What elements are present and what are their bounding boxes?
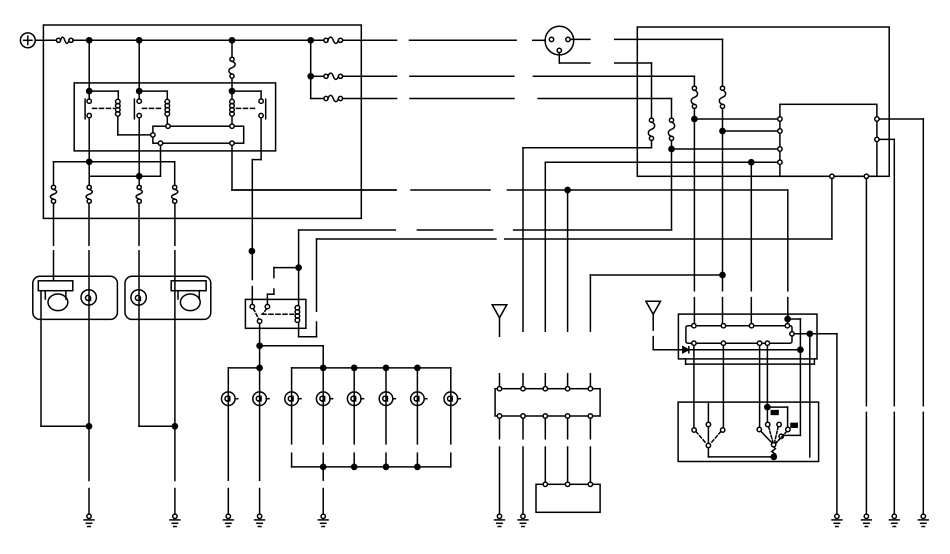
wire lamp1 ground xyxy=(227,489,229,515)
lamp L1 xyxy=(222,392,238,406)
switch right dashes xyxy=(769,427,787,443)
control unit terminals xyxy=(151,124,235,145)
wire lineP xyxy=(299,229,672,231)
antenna ANT1 xyxy=(492,305,507,318)
amplifier terminals xyxy=(543,482,593,486)
wire ant2 drop xyxy=(653,314,682,349)
relay R2 contact points xyxy=(137,99,141,118)
integration unit left terminals xyxy=(778,117,782,165)
junction relay2-out / lineB xyxy=(137,174,142,179)
fuse F3 xyxy=(86,185,92,203)
junction ant line/800 xyxy=(798,347,803,352)
ground G10 xyxy=(918,514,928,526)
wire fuse232 to relay3 xyxy=(231,78,233,91)
wire radio out3 xyxy=(759,345,761,427)
lighting relay common xyxy=(257,319,261,323)
wire horn1 out xyxy=(41,291,89,427)
horn S1 (spiral) xyxy=(81,290,96,305)
radio right terminal xyxy=(790,332,794,336)
lighting switch box xyxy=(678,402,819,461)
wire bus y40 seg2 xyxy=(410,39,517,41)
lamp L4 xyxy=(316,392,332,406)
junction fuseB/term3 xyxy=(669,146,674,151)
wire lamp relay coil riser xyxy=(298,230,300,306)
ground G8 xyxy=(862,514,872,526)
ignition switch SW1 xyxy=(545,26,574,55)
switch right cluster contacts xyxy=(757,422,790,431)
horn H2 xyxy=(171,281,206,311)
dash fuse box (outer left box) xyxy=(43,25,361,218)
integration unit (inner box) xyxy=(780,104,877,176)
node relay3 top junction xyxy=(229,89,234,94)
wire lamp relay B to P xyxy=(274,267,299,269)
relay R1 link xyxy=(93,107,115,109)
ground G1 xyxy=(84,514,94,526)
wire fuse3 down xyxy=(88,203,90,426)
wire lamp bank feed xyxy=(260,346,324,368)
fuse F2 horn xyxy=(50,185,56,203)
splice on relay feed xyxy=(249,249,254,254)
wire conn3 drop xyxy=(544,374,546,387)
wire conn5 drop xyxy=(589,374,591,387)
wire left common out xyxy=(708,448,773,457)
wire radio out4 xyxy=(766,345,768,422)
junction top bus lamp7 xyxy=(415,365,420,370)
label IG xyxy=(791,423,797,427)
wire lamp relay common out xyxy=(259,323,261,480)
fuse FA xyxy=(648,118,654,140)
relay R3 contact bar xyxy=(265,99,267,119)
fuse F4 xyxy=(136,185,142,203)
junction radio feed4 branch xyxy=(785,316,790,321)
speaker bar under radio xyxy=(686,359,815,364)
switch left dashes xyxy=(696,432,721,444)
radio connector top terminals xyxy=(497,387,592,391)
wire bus y40 seg3 xyxy=(533,39,545,41)
wire radio right out xyxy=(794,334,837,514)
wire relay2 contact out xyxy=(138,118,140,186)
ground G3 xyxy=(223,514,233,526)
radio box xyxy=(678,314,817,359)
junction horn2 join xyxy=(172,424,177,429)
wire relay1 drop from bus xyxy=(88,40,90,91)
wire fuseD out xyxy=(722,109,724,324)
fuse/relay box right xyxy=(637,27,889,176)
junction common/feed xyxy=(257,343,262,348)
wire left mid feed xyxy=(707,402,709,422)
wire right term2 out xyxy=(879,139,894,514)
wire bus y40 mid xyxy=(343,39,397,41)
wire relay1 contact feed xyxy=(88,91,90,99)
fuse F5 horn2 xyxy=(172,185,178,203)
wire line y275 xyxy=(590,275,722,331)
wire right term1 out xyxy=(879,119,923,514)
wire row2 segs xyxy=(343,75,695,77)
wire fuseB out xyxy=(671,141,673,230)
wire line A xyxy=(54,162,175,186)
ground G7 xyxy=(518,514,528,526)
fuse main F0 xyxy=(56,37,73,43)
junction fuseD/y275 xyxy=(720,272,725,277)
switch right common xyxy=(771,443,775,447)
wire lamp relay contactB feed xyxy=(267,268,274,305)
diode D1 xyxy=(683,347,689,353)
junction horn1 join xyxy=(86,424,91,429)
fuse F232 vertical xyxy=(229,57,235,78)
wire ant1 drop xyxy=(499,318,501,387)
ground G9 xyxy=(889,514,899,526)
wire fuse232 top xyxy=(231,40,233,57)
switch left cluster contacts xyxy=(692,422,725,432)
wire fuse4 down xyxy=(138,203,140,426)
horn unit right box xyxy=(125,276,211,319)
wire relay3 coil out xyxy=(231,117,233,124)
lighting relay box xyxy=(245,299,306,328)
relay R1 contact points xyxy=(87,99,91,118)
junction bus/fuse232 xyxy=(229,38,234,43)
wire lamp relay contactA feed xyxy=(251,287,253,305)
lighting relay coil xyxy=(295,306,300,323)
relay R2 link xyxy=(143,107,164,109)
lamp L3 xyxy=(285,392,301,406)
wire fuse2 down xyxy=(53,203,55,281)
wire lamp bottom bus xyxy=(292,466,451,468)
wire relay3 contact feed xyxy=(232,91,261,99)
wire conn out 5 xyxy=(589,418,591,482)
wire branch311 down xyxy=(311,40,324,98)
junction top bus lamp6 xyxy=(383,365,388,370)
junction common/pairline xyxy=(257,365,262,370)
relay R1 contact bar xyxy=(84,99,86,119)
wire branch to 800 xyxy=(783,319,800,435)
wire out4 branch xyxy=(767,407,787,427)
junction branch311/row2 xyxy=(308,74,313,79)
wire conn2 drop xyxy=(522,374,524,387)
wire relay2 drop from bus xyxy=(138,40,140,91)
relay R2 coil xyxy=(165,99,170,116)
wire conn4 drop xyxy=(567,190,569,387)
wire switch com riser xyxy=(809,334,811,457)
wire relay1 coil feed xyxy=(89,91,118,99)
junction y190/conn4 xyxy=(565,187,570,192)
lamp L7 xyxy=(411,392,427,406)
wire right solid blade xyxy=(761,431,772,443)
wire row3 segs xyxy=(343,98,672,100)
fuse F7 row3 xyxy=(324,95,343,101)
lamp L5 xyxy=(347,392,363,406)
fuse FC xyxy=(691,86,697,108)
wire term1 line xyxy=(694,118,777,120)
lamp L2 xyxy=(253,392,269,406)
integration unit right terminals xyxy=(875,117,879,142)
wire fuseA out xyxy=(523,141,652,332)
radio top terminals xyxy=(692,324,790,328)
antenna ANT2 xyxy=(646,301,661,314)
wire relay2 coil feed xyxy=(139,91,167,99)
relay sub-box xyxy=(74,83,275,151)
wire conn out 1 xyxy=(499,418,501,514)
wire term4 line xyxy=(545,162,777,331)
junction bus/relay1 xyxy=(87,38,92,43)
switch left common xyxy=(706,443,710,447)
relay R3 link xyxy=(237,107,258,109)
wire switch bottom out xyxy=(559,53,590,63)
wire radio feed3 xyxy=(750,162,752,323)
wire horn1 ground drop xyxy=(88,426,90,514)
junction top bus lamp4 xyxy=(321,365,326,370)
wire term3 line xyxy=(672,148,778,150)
junction bottom bus lamp4 xyxy=(321,464,326,469)
wire battery to fuse xyxy=(35,39,56,41)
radio connector bottom terminals xyxy=(497,414,592,418)
wire lamp pair line xyxy=(228,368,259,480)
label ACC xyxy=(771,411,778,415)
switch common zigzag xyxy=(772,447,776,456)
junction term4/radio xyxy=(749,160,754,165)
junction radio right/switchwire xyxy=(807,331,812,336)
fuse F1 row1 xyxy=(324,37,343,43)
wire fuseB top xyxy=(671,99,673,119)
wire relay2 contact feed xyxy=(138,91,140,99)
wire line y190 xyxy=(232,190,788,291)
horn S2 (spiral) xyxy=(131,290,146,305)
junction bus/relay2 xyxy=(137,38,142,43)
ground G5 xyxy=(318,514,328,526)
wire y40 to corner 722 xyxy=(615,38,723,40)
wire relay1 contact out xyxy=(88,118,90,186)
wire relay2 coil out xyxy=(166,117,168,124)
ground G6 xyxy=(495,514,505,526)
wire term2 line xyxy=(723,130,778,132)
lamp L8 xyxy=(444,392,460,406)
wire lamp relay coil out xyxy=(299,239,317,337)
junction lineA/relay1-out xyxy=(87,159,92,164)
wire radio out2 xyxy=(722,345,724,427)
lamp L6 xyxy=(379,392,395,406)
wire bottom term1 down (lineQ) xyxy=(831,179,833,240)
junction commons xyxy=(771,454,776,459)
junction bottom bus lamp7 xyxy=(415,464,420,469)
wire relay3 coil feed xyxy=(231,91,233,99)
ground G2 xyxy=(170,514,180,526)
wire switch right out xyxy=(570,38,590,40)
ground G11 xyxy=(832,514,842,526)
wire fuseC top xyxy=(693,76,695,86)
wire fuseD top xyxy=(722,39,724,86)
wire rect bottom term2 down xyxy=(232,145,396,190)
junction out4 branch xyxy=(765,405,770,410)
ground G4 xyxy=(255,514,265,526)
wire diode out xyxy=(689,349,801,351)
fuse FD xyxy=(719,86,725,108)
wire left mid to common xyxy=(707,427,709,444)
wire sensor2 jog xyxy=(139,425,175,427)
wire lineQ xyxy=(317,238,832,240)
junction fuseC/term1 xyxy=(692,116,697,121)
relay R1 coil xyxy=(116,99,121,116)
relay R2 contact bar xyxy=(133,99,135,119)
wire conn out 2 xyxy=(522,418,524,514)
wire relay3 contact out xyxy=(252,118,261,280)
wire lamp bus ground drop xyxy=(322,467,324,514)
fuse FB xyxy=(668,118,674,140)
wire lamp bank drops bottom 2 xyxy=(292,453,451,467)
horn unit left box xyxy=(33,276,118,319)
node relay1 top junction xyxy=(87,89,92,94)
wire fuseA drop xyxy=(651,63,653,118)
wire fuseC out xyxy=(693,109,695,324)
junction fuseD/term2 xyxy=(720,128,725,133)
lighting relay link dashes xyxy=(254,309,294,319)
junction coil-feed/bracket xyxy=(296,265,301,270)
wire radio feed4 xyxy=(787,298,789,324)
wire radio out1 xyxy=(693,345,695,427)
wire lamp bank drops top xyxy=(292,368,451,444)
node relay2 top junction xyxy=(137,89,142,94)
junction bottom bus lamp5 xyxy=(352,464,357,469)
horn H1 xyxy=(38,281,73,311)
wire conn out 3 xyxy=(544,418,546,482)
radio inner frame xyxy=(686,326,792,344)
wire bottom term2 down xyxy=(865,179,867,515)
wire y63 seg2 xyxy=(615,62,652,64)
wire lamp top bus xyxy=(292,367,451,369)
wire rect bottom term1 down xyxy=(160,145,162,176)
wire horn2 ground drop xyxy=(174,426,176,514)
fuse F6 row2 xyxy=(324,73,343,79)
integration unit bottom terminals xyxy=(830,174,869,178)
wire lamp2 ground xyxy=(259,489,261,515)
wire relay1 coil out xyxy=(118,117,151,135)
battery B1 (+) xyxy=(20,33,35,48)
junction top bus lamp5 xyxy=(352,365,357,370)
wire fuse5 down xyxy=(174,203,176,426)
wire main bus y40 inside box xyxy=(73,39,324,41)
radio connector box xyxy=(495,389,600,416)
junction bottom bus lamp6 xyxy=(383,464,388,469)
relay R3 contact points xyxy=(259,99,263,118)
wire line B xyxy=(89,175,160,177)
switch right extra contact xyxy=(779,434,783,438)
junction bus/branch311 xyxy=(308,38,313,43)
control unit (horn rect) xyxy=(153,126,244,143)
relay R3 coil xyxy=(230,99,235,116)
radio bottom terminals xyxy=(692,341,770,345)
amplifier box xyxy=(536,484,600,512)
wire conn out 4 xyxy=(567,418,569,482)
lighting relay contacts xyxy=(250,304,269,308)
